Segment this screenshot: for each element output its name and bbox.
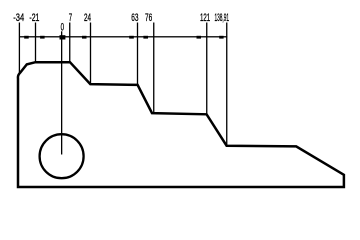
- tick 7: [219, 36, 223, 39]
- svg-text:-21: -21: [29, 12, 39, 24]
- svg-text:121: 121: [200, 12, 210, 24]
- extension line 121: [206, 23, 207, 114]
- svg-text:7: 7: [69, 12, 72, 24]
- part profile outline: [18, 62, 344, 187]
- tick 1: [24, 36, 29, 39]
- svg-text:0: 0: [61, 21, 64, 33]
- svg-text:63: 63: [131, 12, 138, 24]
- tick 5: [143, 36, 148, 39]
- svg-text:-34: -34: [13, 12, 24, 24]
- extension line 24: [90, 23, 91, 84]
- extension line 7: [69, 23, 70, 62]
- tick 4: [129, 36, 134, 39]
- dimension line: [19, 36, 227, 37]
- extension line -21: [35, 23, 36, 62]
- extension line 138,91: [226, 23, 227, 146]
- tick 6: [197, 36, 202, 39]
- extension line 63: [137, 23, 138, 85]
- tick 2: [40, 36, 45, 39]
- hole circle: [40, 134, 84, 178]
- svg-text:76: 76: [145, 12, 152, 24]
- svg-text:138,91: 138,91: [215, 12, 230, 24]
- tick zero node: [60, 35, 66, 39]
- svg-text:24: 24: [84, 12, 91, 24]
- extension line 0 (to circle center): [61, 31, 62, 154]
- tick 3: [82, 36, 87, 39]
- extension line -34: [19, 23, 20, 74]
- extension line 76: [153, 23, 154, 113]
